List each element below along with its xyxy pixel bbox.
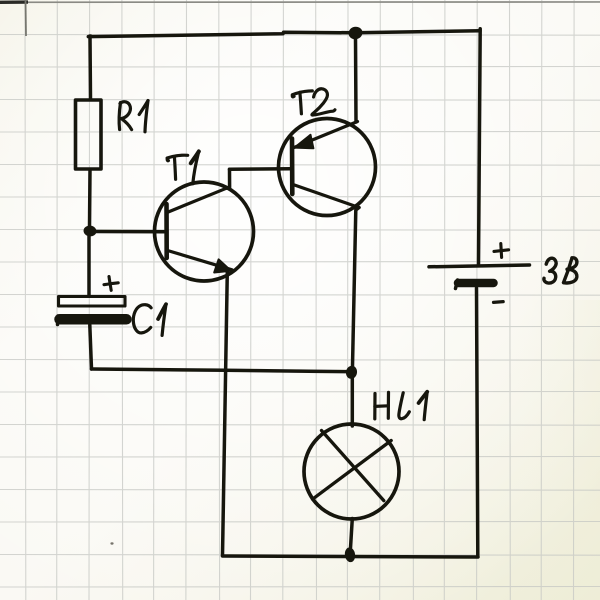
wire battery top lead [479,29,481,264]
label 3B [544,258,577,283]
node lamp junction [345,365,358,380]
label R1 [119,101,148,132]
wire lamp top lead [351,379,355,427]
wire C1 to lamp node horizontal [92,369,347,372]
label T2 [292,89,335,115]
resistor R1 [76,100,102,169]
label T1 [167,151,199,183]
wire R1 bottom lead [88,170,92,228]
node top rail junction [347,25,363,40]
wire bottom rail [223,556,479,557]
wire T2 base lead [230,167,291,171]
polarity minus battery [494,300,504,304]
wire T2 collector drop [353,208,360,367]
node R1/T1/C1 junction [83,225,97,238]
wire T1 base lead [95,230,164,234]
battery GB1 [429,265,530,289]
wire C1 top lead [87,235,91,296]
lamp HL1 [304,424,399,519]
label HL1 [375,392,427,420]
polarity plus battery [494,244,509,258]
wire top rail [88,31,480,37]
wire C1 bottom lead [90,325,92,369]
wire T2 emitter riser [354,38,358,122]
polarity plus C1 [104,277,118,291]
capacitor C1 [58,297,127,325]
wire T1 collector riser [227,169,230,188]
node bottom rail junction [344,547,356,563]
wire battery bottom lead [477,288,478,557]
wire T1 emitter drop [223,272,228,556]
dark top edge grid accents [0,0,600,36]
transistor T2 [279,119,376,216]
stray pen speck [110,542,113,544]
wire lamp bottom lead [351,519,353,549]
transistor T1 [155,182,254,281]
label C1 [133,304,166,335]
wire R1 top lead [88,37,92,100]
